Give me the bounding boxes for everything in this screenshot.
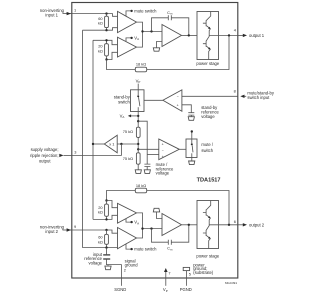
wire: to mute comparator middle input xyxy=(138,148,159,150)
op-amp A3 (power op-amp 1) xyxy=(162,25,182,47)
svg-text:18 kΩ: 18 kΩ xyxy=(136,62,146,67)
resistor 20 kOhm (ch1) xyxy=(106,40,108,59)
ground (ch1 A3) xyxy=(153,48,159,51)
svg-text:MGC391: MGC391 xyxy=(225,281,237,285)
wire: A1/A2 output bus xyxy=(137,22,163,47)
svg-text:kΩ: kΩ xyxy=(98,21,103,26)
svg-text:switch input: switch input xyxy=(247,95,270,100)
svg-text:7: 7 xyxy=(168,271,170,276)
node: VA label leader (ch1) xyxy=(126,38,131,41)
wire: net B bottom to 20k ch2 / A2' lower input xyxy=(93,215,118,219)
IC boundary xyxy=(72,3,238,279)
svg-text:switch: switch xyxy=(201,148,213,153)
svg-text:input 1: input 1 xyxy=(45,12,58,17)
wire: 18k to output node xyxy=(147,35,229,69)
wire: feedback from 20k bottom to 18k resistor xyxy=(107,60,136,70)
wire: A3 output to power stage xyxy=(182,34,198,36)
wire: buffer input from VA node xyxy=(117,143,138,145)
node: pin 8 external label xyxy=(244,95,246,97)
wire: A3 lower input to ground xyxy=(157,42,163,48)
svg-text:PGND: PGND xyxy=(180,287,192,292)
op-amp A1 (input amp 1) xyxy=(118,11,137,32)
svg-text:(substrate): (substrate) xyxy=(193,270,214,275)
svg-text:kΩ: kΩ xyxy=(98,48,103,53)
svg-text:1: 1 xyxy=(74,7,76,12)
svg-text:+: + xyxy=(177,104,179,108)
stand-by switch box xyxy=(131,90,145,112)
svg-text:supply voltage;: supply voltage; xyxy=(31,147,59,152)
wire: lower input line of A1 from node A xyxy=(83,28,118,31)
wire: external lead into pin 1 with arrow xyxy=(63,13,72,15)
capacitor input reference voltage xyxy=(103,254,110,255)
svg-text:voltage: voltage xyxy=(156,171,170,176)
capacitor Cm (ch1) feedback loop xyxy=(152,18,189,36)
svg-text:VA: VA xyxy=(134,35,139,41)
svg-text:kΩ: kΩ xyxy=(98,210,103,215)
node: signal ground pin 2 xyxy=(121,265,123,286)
svg-text:ground: ground xyxy=(125,263,139,268)
power stage box (ch1) xyxy=(197,12,219,60)
node: output 2 external xyxy=(238,224,246,226)
svg-text:kΩ: kΩ xyxy=(98,239,103,244)
svg-text:Cm: Cm xyxy=(167,246,173,252)
wire: power stage output to pin 4 xyxy=(209,34,238,36)
svg-text:output 1: output 1 xyxy=(249,33,265,38)
node: VA label leader (middle) xyxy=(137,115,139,117)
power stage box (ch2) xyxy=(197,201,219,249)
wire: net B top into 20k / A2 upper input xyxy=(93,40,118,44)
svg-text:switch: switch xyxy=(118,99,130,104)
capacitor mute reference xyxy=(144,164,150,166)
wire + ground under lower 75k xyxy=(137,164,139,170)
svg-text:voltage: voltage xyxy=(201,114,215,119)
wire: pin 8 line xyxy=(182,95,238,97)
wire: stand-by switch output down xyxy=(137,107,139,127)
svg-text:8: 8 xyxy=(234,89,236,94)
svg-text:voltage: voltage xyxy=(88,260,102,265)
wire: comparator ref input to cap xyxy=(182,105,191,113)
wire: A3' upper input to ground xyxy=(157,212,163,219)
wire: comparator output to mute switch box xyxy=(179,148,186,150)
svg-text:−: − xyxy=(177,95,179,99)
wire: long vertical net B (VA buffered) xyxy=(92,40,94,219)
svg-text:input 2: input 2 xyxy=(45,229,58,234)
svg-text:75 kΩ: 75 kΩ xyxy=(123,156,133,161)
svg-text:VA: VA xyxy=(120,113,125,119)
resistor 75 kOhm (upper) xyxy=(136,127,140,137)
ground under mute switch xyxy=(189,161,195,165)
svg-text:SGND: SGND xyxy=(114,287,126,292)
node: output 1 external xyxy=(238,34,246,36)
stand-by comparator U1 xyxy=(163,90,182,111)
transistor Q2 (ch1 lower) xyxy=(203,29,211,50)
svg-text:Cm: Cm xyxy=(167,10,173,16)
wire: pin 3 line to x1 buffer input xyxy=(72,144,122,155)
svg-text:75 kΩ: 75 kΩ xyxy=(123,129,133,134)
wire: pin 9 line to A1' input xyxy=(72,230,118,233)
wire: net A bottom to A1' lower input xyxy=(83,247,118,249)
wire: pin 1 line to op-amp A1 + input (jog) xyxy=(72,14,118,17)
wire: Vp to stand-by switch xyxy=(137,84,139,95)
node: VA label leader (ch2) xyxy=(126,219,131,222)
capacitor stand-by reference xyxy=(188,113,194,115)
ground (input reference) xyxy=(107,265,109,267)
wire: buffer output to net B xyxy=(93,143,104,145)
node: Vp supply pin 7 xyxy=(165,271,167,286)
node: junction 60k top xyxy=(105,12,107,14)
op-amp A2' (reference amp 2) xyxy=(118,203,137,223)
svg-text:mute switch: mute switch xyxy=(134,8,157,13)
op-amp A3' (power op-amp 2) xyxy=(162,214,182,236)
svg-text:6: 6 xyxy=(234,219,236,224)
wire: comparator output to stand-by switch xyxy=(144,99,163,101)
mute comparator U2 xyxy=(159,139,180,160)
wire: power stage output to pin 6 xyxy=(209,224,238,226)
transistor Q3 (ch2 upper) xyxy=(203,201,211,219)
node: branch junction to mute reference xyxy=(137,120,139,122)
svg-text:mute /: mute / xyxy=(201,142,213,147)
resistor 60 kOhm (ch2) xyxy=(106,230,108,248)
svg-text:+: + xyxy=(162,155,164,159)
resistor 20 kOhm (ch2) xyxy=(106,201,108,220)
svg-text:TDA1517: TDA1517 xyxy=(197,177,221,183)
svg-text:18 kΩ: 18 kΩ xyxy=(136,183,146,188)
wire: long vertical net A (input reference) xyxy=(82,30,84,247)
svg-text:5: 5 xyxy=(189,271,191,276)
wire: branch to mute reference cap xyxy=(138,121,147,164)
op-amp A1' (input amp 2) xyxy=(118,228,137,249)
resistor 60 kOhm (ch1) xyxy=(106,14,108,31)
node: mute switch label leader (ch1) xyxy=(126,11,131,16)
wire: control line above mute switch xyxy=(191,132,193,143)
svg-text:VP: VP xyxy=(136,78,141,84)
svg-text:+: + xyxy=(162,142,164,146)
svg-text:x 1: x 1 xyxy=(109,142,114,147)
wire: A1'/A2' output bus xyxy=(137,213,163,238)
resistor 75 kOhm (lower) xyxy=(136,153,140,164)
svg-text:9: 9 xyxy=(74,224,76,229)
svg-text:output: output xyxy=(39,158,51,163)
wire: 18k ch2 to output node xyxy=(147,191,229,225)
transistor Q1 (ch1 upper) xyxy=(203,12,211,29)
mute switch box xyxy=(186,139,197,158)
wire: input reference node down from 60k ch2 xyxy=(106,248,108,255)
wire: 20k ch2 top jog to A2' input xyxy=(107,201,118,208)
wire: stub to mute comparator lower input xyxy=(147,154,159,156)
resistor 18 kOhm (ch1) xyxy=(135,67,146,72)
svg-text:power stage: power stage xyxy=(196,253,219,258)
svg-text:output 2: output 2 xyxy=(249,222,265,227)
svg-text:mute switch: mute switch xyxy=(134,247,157,252)
ground under mute reference cap xyxy=(144,170,150,174)
transistor Q4 (ch2 lower) xyxy=(203,218,211,239)
wire: 20k bottom to A2 lower input xyxy=(107,52,118,59)
svg-text:ripple rejection;: ripple rejection; xyxy=(30,153,58,158)
wire: A3' output to power stage xyxy=(182,224,198,226)
svg-text:power stage: power stage xyxy=(196,61,219,66)
buffer x1 xyxy=(104,135,117,153)
svg-text:VA: VA xyxy=(134,220,139,226)
wire: node between 75k resistors xyxy=(137,137,139,152)
op-amp A2 (reference amp 1) xyxy=(118,37,137,57)
capacitor Cm (ch2) feedback loop xyxy=(152,225,189,242)
ground (ch2 A3') xyxy=(153,208,159,212)
node: mute switch label leader (ch2) xyxy=(126,244,131,249)
substrate box pin 5 xyxy=(183,267,189,270)
svg-text:3: 3 xyxy=(74,149,76,154)
wire: cap bottom to signal ground node xyxy=(107,260,122,265)
wire: 18k ch2 to 20k top xyxy=(107,191,136,201)
ground stand-by reference xyxy=(188,117,194,121)
svg-text:2: 2 xyxy=(124,268,126,273)
svg-text:−: − xyxy=(162,149,164,153)
svg-text:VP: VP xyxy=(163,287,168,293)
